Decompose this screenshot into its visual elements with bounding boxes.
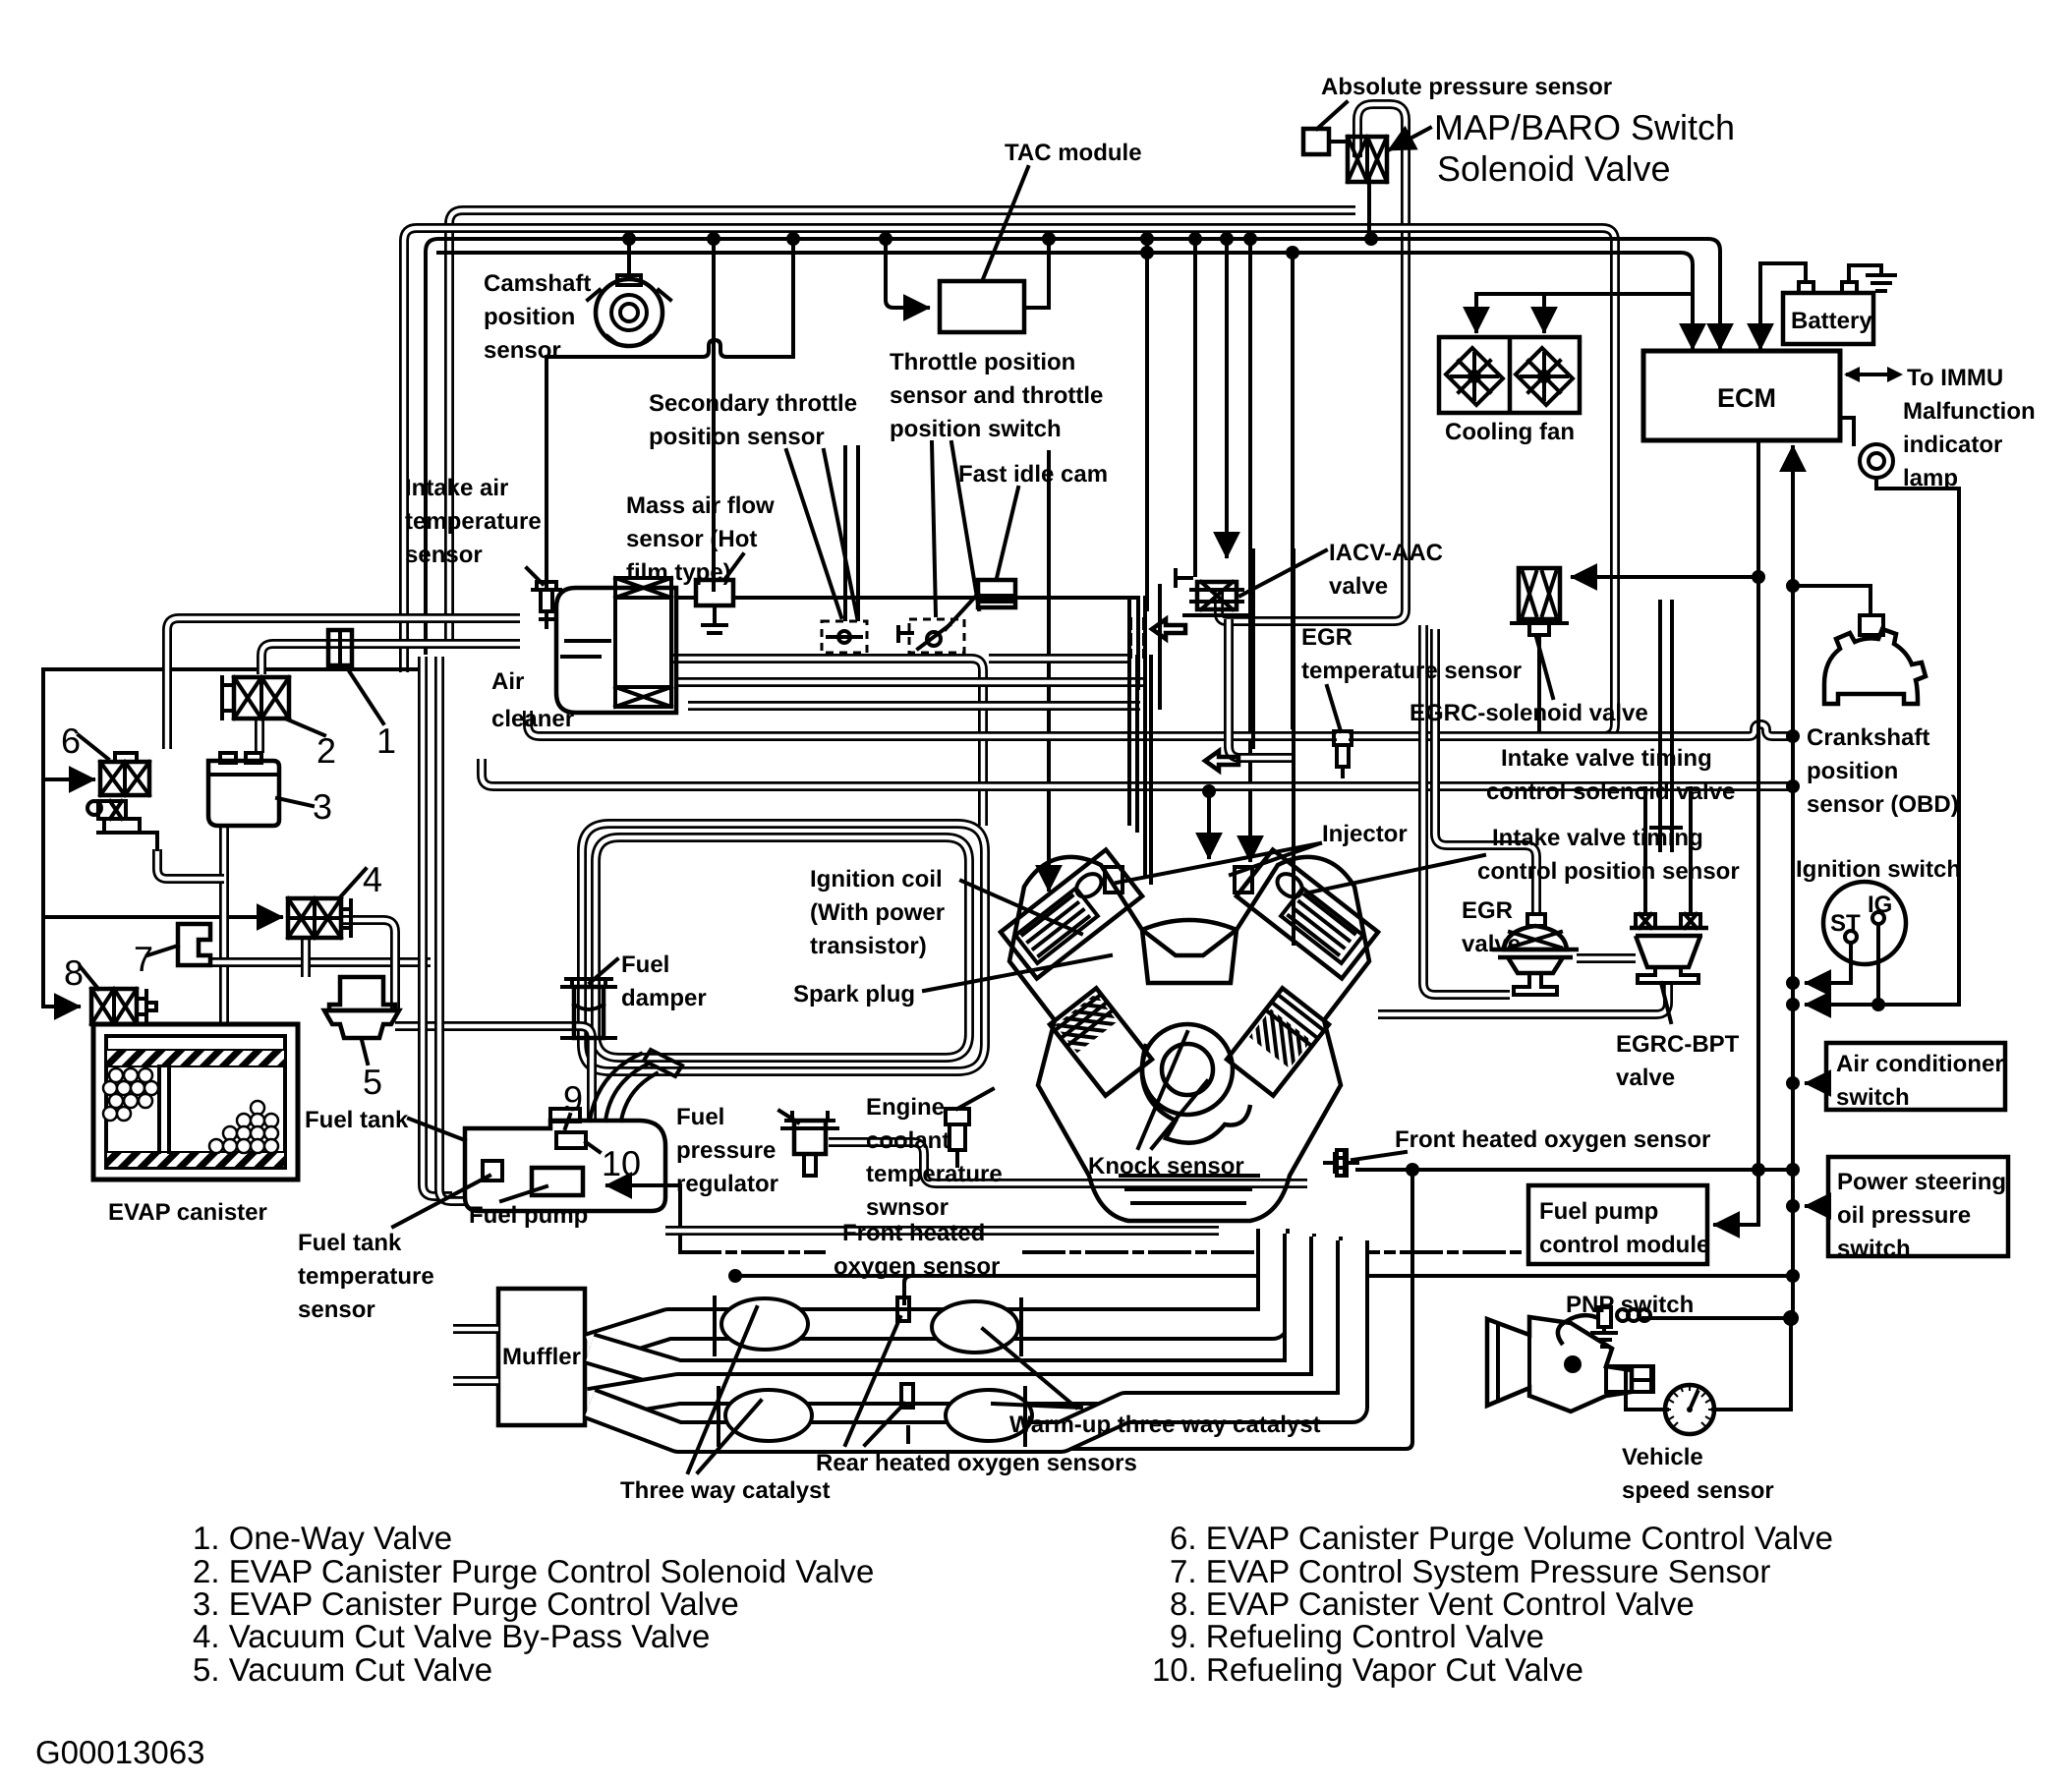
hose air duct upper run — [671, 659, 1129, 826]
wire rear O2 upper to PNP bus — [904, 1276, 911, 1303]
wire front O2 long line — [1357, 1168, 1793, 1172]
junction dots on bus — [622, 232, 1378, 259]
svg-text:sensor: sensor — [484, 337, 561, 364]
fuel tank temp sensor square — [483, 1161, 502, 1180]
wire collector risers — [1253, 550, 1294, 944]
fast idle cam symbol — [946, 580, 1015, 629]
wire secondary throttle sensor drops — [843, 447, 847, 619]
EVAP control system pressure sensor component 7 — [178, 924, 210, 965]
wire camshaft sensor to bus — [627, 239, 631, 279]
leader IACV-AAC — [1240, 550, 1326, 596]
svg-text:position: position — [484, 304, 575, 330]
wire IG terminal drop — [1876, 925, 1880, 1005]
svg-text:sensor (OBD): sensor (OBD) — [1807, 791, 1959, 818]
air filter element top — [615, 578, 671, 598]
leader injector — [1117, 843, 1320, 883]
leader TAC module — [983, 167, 1028, 279]
svg-text:Injector: Injector — [1322, 821, 1408, 847]
collector comb verticals — [1129, 598, 1151, 883]
svg-text:Intake valve timing: Intake valve timing — [1492, 825, 1703, 851]
svg-text:4. Vacuum Cut Valve By-Pass Va: 4. Vacuum Cut Valve By-Pass Valve — [193, 1618, 710, 1654]
battery box — [1783, 293, 1873, 344]
svg-text:MAP/BARO Switch: MAP/BARO Switch — [1434, 107, 1735, 147]
wire IG line to bus arrow — [1807, 1003, 1959, 1007]
leader absolute pressure sensor — [1317, 102, 1347, 129]
cooling fan box — [1439, 337, 1580, 413]
svg-text:ECM: ECM — [1717, 383, 1776, 413]
hose valve 6 base to canister drop — [157, 849, 224, 879]
canister carbon pellets right — [209, 1101, 278, 1153]
mass air flow sensor symbol — [696, 580, 733, 633]
wire ECM bottom-left to EGRC solenoid arrow — [1573, 440, 1758, 577]
exhaust pipe A — [590, 1229, 1273, 1349]
hose fuel loop outer R1 — [582, 824, 985, 1071]
wire PNP bus line — [735, 1274, 1791, 1278]
wire ECM bottom up-arrow from crank link — [1791, 447, 1795, 586]
svg-text:TAC module: TAC module — [1005, 140, 1142, 166]
leader front heated O2 right — [1353, 1152, 1406, 1160]
svg-text:3. EVAP Canister Purge Control: 3. EVAP Canister Purge Control Valve — [193, 1585, 739, 1622]
svg-text:8. EVAP Canister Vent Control: 8. EVAP Canister Vent Control Valve — [1170, 1585, 1695, 1622]
svg-text:Front heated: Front heated — [842, 1220, 985, 1246]
svg-text:Ignition coil: Ignition coil — [810, 866, 943, 892]
camshaft position sensor symbol — [588, 275, 670, 346]
hose EGR valve top link — [1435, 629, 1536, 912]
exhaust pipe D — [590, 1240, 1353, 1437]
svg-text:Power steering: Power steering — [1837, 1169, 2006, 1195]
svg-text:To IMMU: To IMMU — [1907, 365, 2003, 391]
hose EGR valve left riser — [1423, 625, 1510, 995]
leader fuel tank label — [409, 1119, 465, 1140]
battery terminals — [1799, 282, 1813, 293]
ignition switch circle — [1823, 882, 1906, 964]
leader EGRC-solenoid valve — [1536, 637, 1553, 698]
combustion chamber center — [1142, 930, 1237, 983]
fan blades right — [1516, 348, 1573, 405]
svg-text:indicator: indicator — [1903, 432, 2002, 458]
junction dots right cluster — [1752, 570, 1800, 793]
leader intake air temperature sensor — [527, 568, 543, 584]
wire vehicle speed sensor link — [1626, 1318, 1791, 1410]
vertical bus 1824 down — [1791, 586, 1795, 1318]
leader throttle position sensor — [932, 442, 979, 615]
svg-text:temperature: temperature — [405, 508, 542, 535]
svg-text:sensor (Hot: sensor (Hot — [626, 526, 757, 552]
cooling fan feed wires — [1474, 294, 1478, 331]
air cleaner housing — [556, 578, 676, 713]
left bank valve cover — [1001, 849, 1142, 978]
wire throttle position sensor drops — [1145, 239, 1149, 609]
wire fuel pump control line dash-dot — [680, 1250, 1526, 1254]
leader fuel pump label — [501, 1186, 547, 1201]
leader numeral 10 — [586, 1142, 600, 1152]
svg-text:switch: switch — [1837, 1236, 1911, 1262]
svg-text:Secondary throttle: Secondary throttle — [649, 390, 857, 417]
EVAP purge volume control valve component 6 — [87, 753, 157, 849]
hose EGR to BPT link — [1577, 953, 1636, 963]
purge control valve component 3 — [208, 753, 279, 826]
right vertical bus 1822 — [1752, 976, 1885, 1283]
svg-text:Engine: Engine — [866, 1094, 945, 1121]
rear O2 wires redrawn over pipes — [904, 1276, 911, 1442]
power steering oil pressure switch box — [1828, 1157, 2008, 1256]
fuel pump box — [532, 1168, 583, 1195]
svg-text:PNP switch: PNP switch — [1566, 1292, 1694, 1318]
svg-text:Fuel: Fuel — [676, 1104, 724, 1130]
leader mass air flow sensor — [724, 554, 743, 580]
EVAP canister vent control valve component 8 — [91, 989, 156, 1024]
right piston — [1227, 988, 1329, 1095]
purge control solenoid valve component 2 — [222, 677, 289, 719]
wire front O2 drop from bus — [1410, 1170, 1414, 1276]
throttle valve dashed box 2 with fast idle cam lever — [898, 619, 964, 653]
throttle valve dashed box 1 — [822, 621, 867, 653]
svg-text:position: position — [1807, 758, 1898, 784]
svg-text:4: 4 — [363, 859, 382, 899]
svg-text:5: 5 — [363, 1062, 382, 1102]
wire lamp loop to ignition area — [1876, 479, 1959, 1005]
EVAP canister body — [93, 1024, 298, 1180]
leader numeral 6 — [79, 735, 108, 759]
wire TAC feed with hop — [886, 239, 928, 308]
hose long vertical pair to fuel tank left — [439, 657, 465, 1201]
svg-text:coolant: coolant — [866, 1127, 950, 1154]
svg-text:2: 2 — [317, 730, 336, 771]
svg-text:EGRC-BPT: EGRC-BPT — [1616, 1031, 1740, 1058]
hose MAP loop and vertical drop — [1357, 104, 1406, 578]
EGRC-solenoid valve symbol — [1512, 568, 1567, 731]
wire injector feeds into engine — [1047, 452, 1051, 890]
svg-text:Front heated oxygen sensor: Front heated oxygen sensor — [1395, 1126, 1710, 1153]
wire bus upper with junction dots — [426, 239, 1720, 653]
svg-text:pressure: pressure — [676, 1137, 776, 1164]
air filter element bottom — [615, 687, 671, 707]
svg-text:Intake air: Intake air — [405, 475, 508, 501]
hose fuel tank to engine run — [665, 1226, 1219, 1236]
leader three way catalyst — [688, 1307, 761, 1472]
leader fuel damper — [590, 959, 617, 983]
svg-text:Air conditioner: Air conditioner — [1836, 1051, 2004, 1077]
wire MAP valve stub to bus — [1367, 179, 1371, 239]
svg-text:1: 1 — [376, 720, 396, 761]
hose air duct third run — [688, 701, 1140, 711]
svg-text:9: 9 — [563, 1078, 583, 1119]
V6 engine cross-section — [1001, 849, 1378, 1221]
absolute pressure sensor square — [1303, 129, 1329, 154]
svg-text:6. EVAP Canister Purge Volume: 6. EVAP Canister Purge Volume Control Va… — [1170, 1520, 1833, 1556]
hose valve 4 down legs — [301, 939, 311, 977]
hose long intake-valve-timing band — [482, 759, 1793, 786]
flange ticks — [715, 1297, 1025, 1445]
catalyst ovals row1 — [721, 1298, 1032, 1441]
svg-text:1. One-Way Valve: 1. One-Way Valve — [193, 1520, 452, 1556]
svg-text:damper: damper — [621, 985, 707, 1011]
leader EGR temperature sensor — [1327, 686, 1341, 731]
svg-text:Cooling fan: Cooling fan — [1445, 419, 1575, 445]
leader fast idle cam — [997, 488, 1018, 578]
hose long EGRC band — [528, 711, 1793, 736]
svg-text:Absolute pressure sensor: Absolute pressure sensor — [1321, 74, 1612, 100]
svg-text:EVAP canister: EVAP canister — [108, 1199, 267, 1226]
svg-text:control position sensor: control position sensor — [1477, 858, 1740, 885]
svg-text:switch: switch — [1836, 1084, 1910, 1111]
battery wires — [1760, 263, 1806, 348]
vehicle speed sensor gauge — [1665, 1385, 1714, 1434]
svg-text:position switch: position switch — [890, 416, 1062, 442]
svg-text:transistor): transistor) — [810, 933, 927, 959]
intake air temperature sensor plug — [533, 582, 560, 627]
svg-text:EGRC-solenoid valve: EGRC-solenoid valve — [1410, 700, 1648, 726]
hose air cleaner to one-way valve row — [167, 618, 520, 749]
svg-text:swnsor: swnsor — [866, 1194, 949, 1221]
svg-text:Fuel pump: Fuel pump — [469, 1202, 588, 1229]
injector connector squares — [1105, 867, 1122, 892]
PNP switch transmission cone — [1487, 1307, 1653, 1411]
hose pressure sensor line — [208, 957, 431, 967]
air conditioner switch box — [1826, 1043, 2005, 1110]
hose regulator to coolant run — [829, 1142, 1307, 1183]
svg-text:IACV-AAC: IACV-AAC — [1329, 540, 1443, 566]
leader knock sensor — [1138, 1032, 1207, 1148]
svg-text:valve: valve — [1329, 573, 1388, 600]
hose IACV-AAC down leg — [1229, 619, 1294, 758]
svg-text:cleaner: cleaner — [491, 706, 574, 732]
wire into fuel pump control module — [1715, 1170, 1758, 1225]
wire AC switch to bus — [1807, 1081, 1826, 1085]
svg-text:Battery: Battery — [1791, 308, 1872, 334]
fuel tank — [465, 1050, 682, 1211]
hose cut valve to fuel tank — [395, 1026, 592, 1123]
svg-text:temperature sensor: temperature sensor — [1301, 658, 1522, 684]
intake duct upper wall — [676, 596, 1138, 600]
left piston — [1050, 988, 1152, 1095]
svg-text:Fast idle cam: Fast idle cam — [958, 461, 1108, 488]
refueling control valve 9 port — [550, 1109, 580, 1122]
svg-text:Fuel tank: Fuel tank — [305, 1107, 409, 1133]
svg-text:control module: control module — [1539, 1232, 1709, 1258]
svg-text:Air: Air — [491, 668, 524, 695]
leader warm-up three way catalyst — [983, 1329, 1081, 1408]
svg-text:(With power: (With power — [810, 899, 945, 926]
wire cam sensor lower link — [547, 239, 793, 357]
throttle body end walls — [1138, 586, 1160, 708]
svg-text:oxygen sensor: oxygen sensor — [834, 1253, 1000, 1280]
hose air duct second run — [678, 677, 1145, 687]
canister carbon pellets left — [103, 1068, 158, 1121]
svg-text:Solenoid Valve: Solenoid Valve — [1437, 148, 1671, 189]
svg-text:temperature: temperature — [866, 1161, 1003, 1187]
crankshaft position sensor symbol — [1824, 615, 1926, 704]
EGR valve symbol — [1492, 914, 1579, 995]
svg-text:Vehicle: Vehicle — [1622, 1444, 1703, 1470]
svg-text:film type): film type) — [626, 559, 731, 586]
svg-text:Fuel tank: Fuel tank — [298, 1230, 402, 1256]
svg-text:9. Refueling Control Valve: 9. Refueling Control Valve — [1170, 1618, 1544, 1654]
wire injector drop from band — [1207, 791, 1211, 857]
wire arrow into valve 4 — [43, 915, 281, 919]
leader EGRC-BPT — [1661, 983, 1671, 1022]
svg-text:Malfunction: Malfunction — [1903, 398, 2036, 425]
hose from MAP drop to IACV region — [1219, 578, 1406, 621]
wire power steering switch to bus — [1807, 1204, 1828, 1208]
leader numeral 4 — [339, 869, 366, 898]
oil pan lines — [1121, 1176, 1258, 1203]
hose second top run to EGRC solenoid — [404, 228, 1615, 672]
hose EGRC-BPT to engine — [1378, 985, 1668, 1014]
leader fuel pressure regulator — [779, 1111, 798, 1123]
EGRC-BPT valve symbol — [1630, 914, 1708, 995]
svg-text:sensor: sensor — [405, 542, 483, 568]
PNP switch symbol — [1558, 1321, 1567, 1345]
svg-text:Muffler: Muffler — [502, 1344, 581, 1370]
fuel damper symbol — [562, 979, 615, 1038]
right bank valve cover — [1237, 849, 1378, 978]
svg-text:7. EVAP Control System Pressur: 7. EVAP Control System Pressure Sensor — [1170, 1553, 1770, 1589]
wire MAF sensor drop — [712, 239, 716, 590]
vacuum cut valve by-pass valve component 4 — [288, 898, 351, 938]
svg-text:position sensor: position sensor — [649, 424, 825, 450]
svg-text:temperature: temperature — [298, 1263, 434, 1290]
hose twin riser to fuel tank left — [423, 657, 452, 1196]
svg-text:5. Vacuum Cut Valve: 5. Vacuum Cut Valve — [193, 1651, 492, 1688]
exhaust pipe C — [590, 1237, 1326, 1404]
leader spark plug — [924, 955, 1111, 991]
svg-text:oil pressure: oil pressure — [1837, 1202, 1971, 1229]
hose intake valve timing solenoid stubs — [1651, 602, 1681, 850]
leader numeral 9 — [565, 1115, 570, 1128]
hose one-way valve row to purge solenoid — [261, 644, 520, 674]
wire IACV arrow drop — [1225, 239, 1229, 556]
leader numeral 7 — [147, 946, 178, 955]
ECM to IMMU double arrow — [1848, 373, 1897, 376]
IACV-AAC valve symbol — [1176, 570, 1248, 615]
leader engine coolant temp sensor — [957, 1089, 993, 1109]
leader numeral 8 — [81, 967, 98, 989]
hose top main from air cleaner to MAP loop — [449, 210, 1355, 639]
svg-text:10: 10 — [602, 1143, 641, 1183]
wire left frame — [43, 669, 423, 1007]
leader ignition coil — [961, 881, 1081, 934]
svg-text:control solenoid valve: control solenoid valve — [1486, 778, 1735, 805]
svg-text:Fuel pump: Fuel pump — [1539, 1198, 1658, 1225]
svg-text:sensor: sensor — [298, 1296, 375, 1323]
hose solenoid 2 to valve 3 — [255, 720, 264, 753]
svg-text:Rear heated oxygen sensors: Rear heated oxygen sensors — [816, 1450, 1137, 1476]
fan blades left — [1446, 348, 1503, 405]
open air-flow arrow at collector — [1152, 619, 1185, 639]
svg-text:speed sensor: speed sensor — [1622, 1477, 1774, 1504]
fuel pump control module box — [1528, 1185, 1707, 1264]
svg-text:Fuel: Fuel — [621, 951, 669, 978]
one-way valve component 1 — [328, 630, 352, 665]
ground symbol — [1868, 275, 1895, 291]
svg-text:valve: valve — [1616, 1065, 1675, 1091]
svg-text:Knock sensor: Knock sensor — [1088, 1153, 1244, 1180]
svg-text:Crankshaft: Crankshaft — [1807, 724, 1929, 751]
svg-text:7: 7 — [134, 939, 153, 979]
svg-text:regulator: regulator — [676, 1171, 778, 1197]
ECM box — [1643, 351, 1840, 440]
engine coolant temperature sensor symbol — [946, 1109, 969, 1166]
leader numeral 5 — [362, 1040, 368, 1064]
vacuum cut valve component 5 — [324, 977, 399, 1038]
svg-text:Warm-up three way catalyst: Warm-up three way catalyst — [1009, 1411, 1321, 1438]
svg-text:10. Refueling Vapor Cut Valve: 10. Refueling Vapor Cut Valve — [1152, 1651, 1583, 1688]
fuel pressure regulator symbol — [782, 1113, 837, 1176]
svg-text:Three way catalyst: Three way catalyst — [620, 1477, 830, 1504]
svg-text:Ignition switch: Ignition switch — [1796, 856, 1961, 883]
wire PNP coil link — [1643, 1316, 1791, 1320]
svg-text:Mass air flow: Mass air flow — [626, 492, 775, 519]
svg-text:Intake valve timing: Intake valve timing — [1501, 745, 1712, 772]
svg-text:Throttle position: Throttle position — [890, 349, 1075, 375]
wire arrow into valve 6 — [43, 777, 93, 781]
svg-text:6: 6 — [61, 720, 81, 761]
wire crank sensor link — [1793, 586, 1871, 614]
leader intake valve timing control position sensor — [1309, 855, 1484, 892]
wire ST terminal drop to bus arrow — [1807, 944, 1851, 983]
svg-text:sensor and throttle: sensor and throttle — [890, 382, 1103, 409]
leader numeral 3 — [277, 798, 313, 806]
svg-text:valve: valve — [1462, 931, 1521, 957]
svg-text:lamp: lamp — [1903, 465, 1958, 491]
EGR temperature sensor symbol — [1334, 731, 1352, 777]
svg-text:G00013063: G00013063 — [35, 1734, 205, 1770]
MAP/BARO switch solenoid valve — [1348, 128, 1430, 182]
open air-flow arrow lower — [1205, 751, 1238, 771]
svg-text:8: 8 — [64, 952, 84, 993]
svg-text:3: 3 — [313, 786, 332, 827]
svg-text:EGR: EGR — [1301, 624, 1353, 651]
leader numeral 1 — [346, 666, 383, 723]
hose fuel loop inner R2 — [596, 837, 969, 1058]
malfunction indicator lamp — [1860, 444, 1893, 478]
crankshaft — [1142, 1044, 1250, 1143]
wire rear O2 lower to bottom run — [908, 1170, 1412, 1449]
svg-text:Camshaft: Camshaft — [484, 270, 591, 297]
leader rear heated oxygen sensors — [845, 1317, 904, 1445]
TAC module box — [940, 281, 1024, 332]
wire TAC right to bus — [1024, 239, 1049, 308]
leader secondary throttle position sensor — [786, 450, 857, 617]
muffler stubs — [453, 1329, 498, 1381]
engine block outline — [1009, 857, 1369, 1221]
hose EGRC drop to solenoid — [1603, 550, 1615, 736]
leader numeral 2 — [285, 719, 324, 735]
leader fuel tank temp sensor label — [393, 1176, 489, 1227]
hose valve 3 down to canister — [219, 828, 229, 1022]
dashed throttle shaft verticals — [1130, 619, 1144, 657]
exhaust pipe B — [590, 1234, 1299, 1375]
front heated O2 sensor symbol right — [1325, 1150, 1357, 1176]
muffler box — [498, 1289, 585, 1425]
svg-text:EGR: EGR — [1462, 897, 1513, 924]
svg-text:Spark plug: Spark plug — [793, 981, 915, 1008]
rear heated oxygen sensor fittings — [897, 1297, 909, 1321]
wire EGRC-BPT risers — [1645, 788, 1691, 912]
refueling vapor cut valve 10 — [556, 1132, 586, 1148]
hose valve 4 right leg to cut valve — [342, 920, 395, 1008]
filler neck arcs — [590, 1054, 657, 1121]
svg-text:2. EVAP Canister Purge Control: 2. EVAP Canister Purge Control Solenoid … — [193, 1553, 874, 1589]
